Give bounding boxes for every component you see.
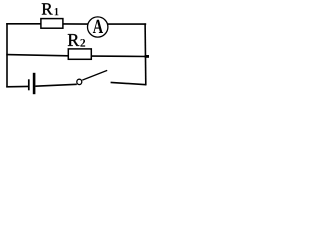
- junction middle-right: [145, 55, 149, 58]
- battery B1 short plate: [28, 79, 30, 90]
- wire bottom-right segment: [111, 82, 147, 84]
- resistor R1: [41, 19, 63, 29]
- wire top-left segment: [6, 23, 41, 25]
- label R1: [42, 3, 59, 15]
- resistor R2: [68, 49, 91, 59]
- switch S lever: [82, 70, 107, 80]
- wire middle-left segment: [6, 55, 68, 56]
- wire top-right segment: [107, 23, 146, 25]
- wire left vertical: [6, 23, 8, 87]
- battery B1 long plate: [33, 73, 36, 94]
- ammeter A: [88, 17, 108, 37]
- wire middle-right segment: [92, 55, 149, 57]
- wire right vertical: [144, 23, 147, 85]
- wire bottom-left segment: [6, 85, 28, 87]
- wire between R1 and ammeter: [63, 23, 88, 25]
- wire battery to switch: [35, 84, 76, 86]
- label R2: [68, 34, 85, 46]
- switch S pivot: [77, 79, 82, 84]
